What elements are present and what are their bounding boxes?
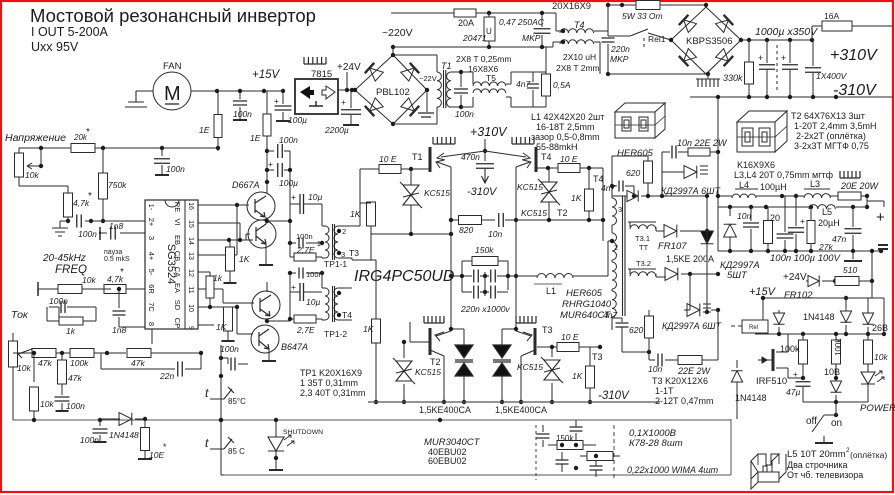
svg-text:100n: 100n: [306, 270, 323, 279]
svg-text:Напряжение: Напряжение: [5, 132, 66, 144]
terminal minus: [878, 245, 888, 249]
capacitor 470n: [484, 151, 486, 161]
wire pin13: [198, 254, 237, 256]
svg-text:Rel: Rel: [749, 325, 758, 331]
heatsink T3 low: [516, 316, 536, 323]
svg-text:100k: 100k: [780, 344, 800, 354]
wire bottom rail bridge: [368, 401, 660, 403]
svg-text:Ток: Ток: [11, 309, 29, 321]
svg-text:зазор 0,5-0,8mm: зазор 0,5-0,8mm: [531, 132, 600, 142]
node 15v c: [262, 89, 266, 93]
svg-text:47k: 47k: [131, 358, 145, 368]
heatsink 20E: [840, 171, 860, 178]
svg-text:1 35Т 0,31mm: 1 35Т 0,31mm: [300, 378, 358, 388]
svg-text:T4: T4: [342, 310, 352, 320]
svg-text:1k: 1k: [213, 273, 223, 283]
svg-text:1-1Т: 1-1Т: [655, 386, 674, 396]
svg-text:T3: T3: [349, 248, 359, 258]
capacitor 100u rail: [282, 91, 284, 104]
svg-text:+: +: [274, 96, 279, 106]
capacitor 100n fan: [239, 91, 241, 99]
svg-text:47µ: 47µ: [786, 387, 800, 397]
fuse 0,5A: [533, 71, 546, 73]
svg-text:13: 13: [187, 252, 194, 260]
capacitor cb3: [590, 466, 603, 470]
led POWER: [861, 372, 875, 384]
svg-text:85 C: 85 C: [228, 447, 245, 456]
igbt T2 low: [429, 328, 432, 355]
resistor 10k vert: [33, 353, 35, 382]
wire mains line1: [391, 12, 454, 14]
resistor 1K drv3: [228, 306, 237, 308]
svg-text:Uxx 95V: Uxx 95V: [31, 40, 79, 54]
svg-text:HER605: HER605: [617, 148, 654, 159]
wire kd bottom vert: [689, 274, 691, 310]
thermostat t 85C upper: [210, 387, 234, 399]
wire 15v down: [762, 298, 764, 315]
diode relay: [773, 313, 784, 324]
ic SG3524 U1: [145, 200, 198, 329]
svg-text:20A: 20A: [458, 18, 474, 28]
svg-text:100µ: 100µ: [288, 115, 307, 125]
node 15v b: [238, 89, 242, 93]
ground switch: [823, 441, 825, 442]
svg-text:20-45kHz: 20-45kHz: [42, 253, 86, 264]
transistor Q3: [252, 291, 280, 319]
led SHUTDOWN: [275, 420, 277, 437]
wire pin15: [198, 222, 240, 224]
svg-text:+: +: [291, 282, 296, 292]
svg-text:~22V: ~22V: [419, 74, 437, 83]
capacitor 1n8 pin3: [120, 232, 145, 234]
diode kd2997 out: [729, 207, 731, 216]
resistor 510: [835, 277, 859, 286]
svg-text:22n: 22n: [159, 371, 174, 381]
capacitor 100n v: [61, 393, 63, 395]
svg-text:20Е 20W: 20Е 20W: [840, 181, 880, 191]
svg-text:+310V: +310V: [470, 125, 508, 139]
bridge rectifier PBL102: [355, 55, 427, 124]
svg-text:0,47 250AC: 0,47 250AC: [499, 17, 545, 27]
wire tt right vert: [717, 196, 719, 251]
resistor 1E second: [266, 91, 268, 114]
node t5 top: [459, 70, 463, 74]
svg-text:+: +: [758, 53, 763, 63]
wire to pin1: [91, 220, 145, 222]
resistor 2,7E tp1: [294, 253, 316, 261]
svg-text:20471: 20471: [462, 33, 487, 43]
svg-text:3: 3: [147, 236, 156, 240]
svg-text:6R: 6R: [147, 284, 156, 294]
svg-text:3: 3: [341, 250, 345, 259]
thermostat t 85C lower: [210, 437, 234, 449]
diode 1n4148 g: [731, 371, 742, 382]
svg-text:16A: 16A: [824, 11, 839, 21]
svg-text:3-2х3Т МГТФ 0,75: 3-2х3Т МГТФ 0,75: [794, 141, 869, 151]
svg-text:EA: EA: [173, 283, 182, 293]
svg-text:1X400V: 1X400V: [816, 71, 848, 81]
svg-text:0,5A: 0,5A: [553, 80, 571, 90]
svg-text:+: +: [781, 53, 786, 63]
svg-text:2,3 40Т 0,31mm: 2,3 40Т 0,31mm: [300, 388, 366, 398]
svg-text:KC515: KC515: [517, 362, 543, 372]
svg-text:1n8: 1n8: [112, 325, 126, 335]
wire out gnd rail: [802, 398, 804, 402]
diode 24v: [808, 275, 819, 286]
capacitor 100n tok: [49, 306, 59, 308]
resistor 47k a: [13, 352, 32, 354]
node 15v a: [215, 89, 219, 93]
svg-text:MKP: MKP: [610, 54, 629, 64]
svg-text:4+: 4+: [147, 252, 156, 261]
node bridge top: [391, 53, 395, 57]
resistor 100k g: [799, 340, 808, 364]
diode z26 a: [840, 311, 851, 322]
svg-text:1K: 1K: [571, 193, 582, 203]
capacitor 100n drv: [221, 357, 228, 359]
svg-text:K16X9X6: K16X9X6: [737, 160, 775, 170]
inductor L3: [804, 194, 830, 198]
svg-text:10k: 10k: [874, 352, 888, 362]
svg-text:10µ: 10µ: [308, 192, 322, 202]
resistor 2,7E tp2: [294, 315, 316, 323]
svg-text:-310V: -310V: [833, 82, 877, 99]
resistor 20E 20W: [838, 192, 861, 200]
capacitor 1X400V: [812, 40, 814, 66]
svg-text:47n: 47n: [832, 234, 846, 244]
capacitor 100n tp1: [299, 238, 303, 249]
capacitor 100n left: [161, 148, 163, 156]
svg-text:10 E: 10 E: [561, 332, 579, 342]
svg-text:пауза: пауза: [104, 249, 122, 256]
resistor 1K low2: [586, 366, 595, 388]
potentiometer 10k voltage: [18, 148, 20, 153]
transformer TT winding3: [612, 262, 617, 289]
svg-text:0.5 mkS: 0.5 mkS: [104, 256, 130, 263]
zener KC515 g1: [400, 182, 422, 208]
svg-text:IRG4PC50UD: IRG4PC50UD: [354, 268, 455, 285]
svg-text:26В: 26В: [872, 323, 888, 333]
inductor L4: [732, 194, 756, 198]
svg-text:+: +: [341, 97, 346, 107]
svg-text:1E: 1E: [199, 125, 210, 135]
diode z26 b: [862, 313, 873, 324]
svg-text:2X10 uH: 2X10 uH: [563, 52, 596, 62]
svg-text:*: *: [86, 127, 90, 138]
resistor 10k out: [864, 340, 873, 364]
core drawing T2: [737, 111, 787, 152]
wire napr row: [19, 147, 71, 149]
svg-text:MKP: MKP: [522, 33, 541, 43]
svg-text:100n: 100n: [220, 344, 239, 354]
resistor 1K g4: [585, 189, 594, 211]
capacitor 100n 4k7: [67, 221, 69, 222]
svg-text:ТТ: ТТ: [639, 243, 649, 252]
svg-text:2-2х2Т (оплётка): 2-2х2Т (оплётка): [796, 131, 866, 141]
zener KC515 low2: [541, 357, 563, 383]
svg-text:HER605: HER605: [566, 288, 603, 299]
diode kd2997 t1: [684, 166, 697, 179]
wire q34 node: [265, 319, 269, 323]
heatsink T1 igbt: [433, 137, 455, 144]
resistor 1K low1: [372, 319, 381, 343]
winding T3.2: [628, 268, 656, 270]
svg-text:+15V: +15V: [252, 69, 281, 81]
wire mains line2: [391, 46, 553, 48]
transistor D667A Q2: [248, 220, 276, 248]
resistor 1E first: [217, 91, 219, 114]
resistor 150k cb2: [587, 452, 613, 461]
svg-text:100n: 100n: [80, 435, 99, 445]
diode black snub: [701, 231, 714, 244]
svg-text:1-20Т 2,4mm 3,5mH: 1-20Т 2,4mm 3,5mH: [794, 121, 877, 131]
svg-text:Т3 K20X12X6: Т3 K20X12X6: [652, 376, 708, 386]
svg-text:7815: 7815: [311, 69, 332, 80]
fuse 20A: [454, 9, 476, 17]
svg-text:T2: T2: [557, 208, 568, 218]
ground bridge: [418, 113, 434, 117]
diode 10B: [830, 381, 841, 392]
svg-text:150k: 150k: [556, 434, 574, 443]
resistor 10E g1: [359, 169, 361, 203]
svg-text:KC515: KC515: [424, 188, 450, 198]
motor FAN M1: [153, 72, 191, 110]
svg-text:К78-28 8шт: К78-28 8шт: [629, 438, 683, 449]
capacitor 1000u c2: [789, 40, 791, 63]
wire out bottom rail: [718, 250, 881, 252]
svg-text:Т2 64Х76Х13 3шт: Т2 64Х76Х13 3шт: [791, 111, 865, 121]
svg-text:КД2997А 6ШТ: КД2997А 6ШТ: [662, 321, 722, 331]
capacitor 4n7 input: [511, 71, 533, 73]
igbt T1: [429, 147, 432, 172]
svg-text:1N4148: 1N4148: [109, 430, 139, 440]
svg-text:220n: 220n: [610, 44, 630, 54]
svg-text:7C: 7C: [147, 302, 156, 312]
resistor 330k: [748, 40, 750, 62]
svg-text:2X8 T 2mm: 2X8 T 2mm: [556, 63, 600, 73]
ground fan: [125, 91, 147, 107]
resistor 10E g4: [537, 167, 558, 169]
ground comb bridge: [707, 74, 709, 79]
svg-text:16-18Т 2,5mm: 16-18Т 2,5mm: [536, 122, 595, 132]
svg-text:15: 15: [187, 220, 194, 228]
svg-text:Т3.1: Т3.1: [635, 234, 650, 243]
wire shutdown box: [224, 474, 731, 476]
relay coil Rel1 box: [742, 320, 768, 333]
svg-text:L3: L3: [810, 179, 820, 189]
svg-text:~220V: ~220V: [382, 27, 413, 39]
fuse 16A: [822, 21, 852, 31]
svg-text:510: 510: [843, 265, 857, 275]
svg-text:100k: 100k: [834, 338, 843, 356]
wire pot bottom: [19, 185, 68, 187]
svg-text:1K: 1K: [363, 324, 374, 334]
varistor 20471: [487, 11, 491, 15]
mosfet IRF510: [772, 349, 775, 371]
resistor 20k: [71, 144, 95, 153]
svg-text:4n7: 4n7: [603, 310, 617, 320]
svg-text:5W 33 Om: 5W 33 Om: [622, 11, 663, 21]
svg-text:L1: L1: [546, 286, 556, 296]
transistor B647A Q4: [251, 325, 279, 353]
diode FR107: [664, 225, 677, 238]
svg-text:T5: T5: [486, 73, 496, 83]
node drv c: [265, 180, 269, 184]
svg-text:1: 1: [317, 241, 321, 248]
resistor 20 out: [764, 221, 773, 244]
svg-text:100n 100µ 100V: 100n 100µ 100V: [770, 253, 842, 264]
svg-text:KC515: KC515: [415, 367, 441, 377]
ground out: [852, 251, 854, 259]
svg-text:100k: 100k: [70, 358, 89, 368]
winding TT bottom: [612, 291, 616, 317]
svg-text:10µ: 10µ: [306, 297, 320, 307]
svg-text:SHUTDOWN: SHUTDOWN: [283, 429, 323, 436]
svg-text:1000µ х350V: 1000µ х350V: [755, 26, 818, 38]
tvs 1,5KE400CA pair1: [455, 345, 473, 376]
core drawing L1: [615, 103, 665, 138]
wire pin9: [198, 324, 214, 326]
capacitor cb2: [570, 427, 583, 431]
transformer TP1-1: [325, 226, 329, 258]
svg-text:20: 20: [770, 213, 780, 223]
svg-text:16X8X6: 16X8X6: [468, 64, 499, 74]
dash box bank: [535, 425, 537, 480]
svg-text:2,7E: 2,7E: [296, 245, 315, 255]
svg-text:L5: L5: [822, 207, 832, 217]
svg-text:+: +: [800, 216, 805, 226]
capacitor 100u out: [795, 196, 797, 226]
transformer TT winding2: [612, 233, 617, 260]
svg-text:B647A: B647A: [281, 342, 308, 352]
svg-text:620: 620: [626, 168, 640, 178]
svg-text:100n: 100n: [296, 232, 313, 241]
svg-text:2: 2: [342, 227, 346, 236]
wire pin12: [198, 271, 210, 273]
wire thermo vertical: [220, 345, 222, 475]
capacitor 47n out: [852, 207, 854, 227]
svg-text:5-: 5-: [147, 269, 156, 276]
resistor 1K drv1: [229, 240, 231, 247]
tvs 1,5KE400CA pair2: [493, 345, 511, 376]
svg-text:T1: T1: [412, 152, 423, 162]
svg-text:4n7: 4n7: [516, 79, 530, 89]
zener KC515 g4: [538, 179, 560, 205]
diode lower fr: [665, 268, 678, 281]
svg-text:ТР1 K20X16X9: ТР1 K20X16X9: [300, 368, 362, 378]
svg-text:PBL102: PBL102: [376, 87, 410, 98]
svg-text:EB: EB: [173, 235, 182, 245]
svg-text:KC515: KC515: [517, 182, 543, 192]
resistor 4,7k star: [64, 193, 73, 217]
node bridge bottom: [391, 122, 395, 126]
capacitor bank bottom: [536, 425, 564, 438]
svg-text:КД2997А 6ШТ: КД2997А 6ШТ: [661, 186, 721, 196]
svg-text:470n: 470n: [461, 152, 480, 162]
wire bridge right to ground: [426, 90, 428, 112]
resistor 27k out: [807, 221, 815, 244]
svg-text:100n: 100n: [233, 109, 252, 119]
svg-text:10k: 10k: [82, 275, 96, 285]
svg-text:1N4148: 1N4148: [735, 393, 767, 403]
igbt T4: [535, 147, 538, 172]
wire pin11: [198, 288, 223, 290]
regulator 7815 U2: [295, 79, 338, 114]
wire minus branch: [871, 251, 873, 281]
svg-text:Rel1: Rel1: [648, 34, 666, 44]
svg-text:9: 9: [187, 326, 194, 330]
svg-text:16: 16: [187, 202, 194, 210]
core TT: [623, 196, 626, 316]
wire top phase: [608, 4, 636, 6]
svg-text:M: M: [164, 83, 181, 105]
svg-text:1K: 1K: [239, 254, 250, 264]
svg-text:150k: 150k: [475, 245, 494, 255]
svg-text:55-88mkH: 55-88mkH: [536, 142, 578, 152]
wire bottom long: [13, 419, 731, 421]
svg-text:820: 820: [459, 225, 473, 235]
svg-text:100µН: 100µН: [760, 182, 787, 192]
winding T3.1: [628, 221, 656, 223]
svg-text:10k: 10k: [17, 363, 31, 373]
svg-text:47k: 47k: [68, 373, 82, 383]
wire bridge bottom to T1: [393, 123, 437, 125]
node 15v d: [281, 89, 285, 93]
svg-text:on: on: [831, 418, 842, 429]
svg-text:RE: RE: [173, 202, 182, 212]
svg-text:330k: 330k: [723, 73, 743, 83]
resistor 47k vert: [61, 353, 63, 360]
svg-text:*: *: [120, 267, 124, 278]
resistor 1k tok: [59, 317, 83, 325]
svg-text:10n: 10n: [648, 364, 662, 374]
svg-text:Т3.2: Т3.2: [636, 259, 651, 268]
resistor 150k res: [472, 257, 498, 266]
resistor 1k drv2: [206, 276, 214, 298]
svg-text:1,5KE400CA: 1,5KE400CA: [495, 405, 547, 415]
svg-text:1,5KE400CA: 1,5KE400CA: [419, 405, 471, 415]
capacitor 100n T1: [460, 72, 462, 87]
resistor 820: [451, 219, 459, 221]
wire pin14: [198, 239, 253, 241]
capacitor 22n: [100, 353, 102, 369]
svg-text:0,22х1000 WIMA 4шт: 0,22х1000 WIMA 4шт: [627, 465, 719, 475]
svg-text:D667A: D667A: [232, 180, 260, 190]
capacitor 100n tp2: [290, 272, 296, 274]
svg-text:8: 8: [147, 322, 156, 326]
resistor 620 b: [645, 316, 654, 338]
svg-text:L1 42X42X20 2шт: L1 42X42X20 2шт: [531, 112, 604, 122]
svg-text:1K: 1K: [350, 209, 361, 219]
svg-text:47k: 47k: [38, 358, 52, 368]
svg-text:620: 620: [629, 325, 643, 335]
svg-text:100n: 100n: [78, 229, 97, 239]
svg-text:L4: L4: [739, 180, 749, 190]
svg-text:+310V: +310V: [830, 47, 878, 64]
transformer TT winding1: [598, 275, 608, 277]
svg-text:IRF510: IRF510: [756, 376, 787, 387]
svg-text:10n: 10n: [737, 211, 751, 221]
capacitor 10n mid: [499, 213, 504, 227]
diode 1N4148 left: [100, 418, 120, 420]
wire z26 rail: [763, 297, 872, 299]
svg-text:2200µ: 2200µ: [324, 125, 349, 135]
capacitor 1000u c1: [766, 40, 768, 63]
svg-text:1-: 1-: [147, 204, 156, 211]
capacitor 47u: [802, 378, 804, 380]
wire 1E join: [217, 148, 219, 151]
wire mid rail right: [516, 219, 603, 221]
